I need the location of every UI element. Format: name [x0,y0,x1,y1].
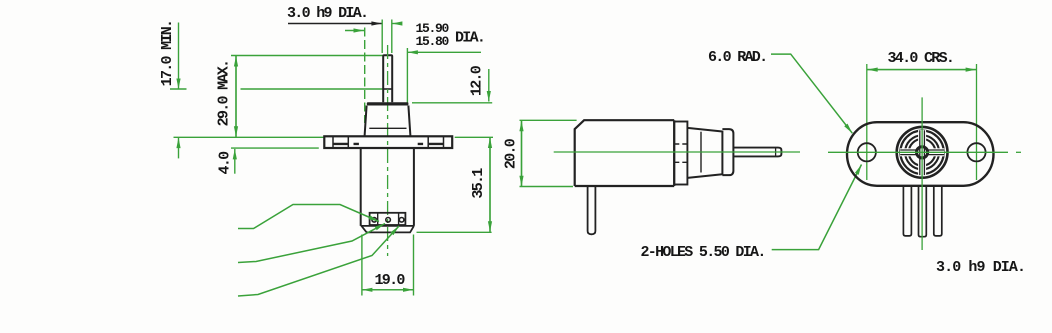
cone inner vertical line [700,132,702,173]
rear horizontal centerline [828,151,1008,153]
bushing top bar [367,102,409,105]
12.0 bottom reference line [412,102,492,104]
side shaft [733,148,781,157]
boss outer circle [897,127,948,178]
6.0 RAD leader line [771,54,852,133]
bottom tray chamfer [362,226,414,233]
svg-text:6.0 RAD.: 6.0 RAD. [708,49,766,66]
35.1 dimension line down arrow [489,138,491,232]
15.9 dia dimension line with left arrow [407,51,481,53]
green right outside arrow of 3.0 dim [392,23,399,25]
body bottom edge [361,225,414,227]
centerline left view [387,45,389,256]
20.0 top reference line [520,119,577,121]
terminal left box [377,213,379,225]
rear plate outline [847,122,994,186]
35.1 dimension line up arrow [489,138,491,232]
20.0 bottom reference line [520,186,574,188]
side body outline [575,120,675,186]
rear vertical centerline [921,97,923,250]
17.0 dim lower outside arrow line [178,138,180,159]
cone section [687,128,722,178]
left mounting hole [858,143,876,161]
4.0 lower outside arrow line [234,149,236,174]
17.0 dim upper outside arrow line [178,23,180,90]
slot horizontal white bar [900,148,944,156]
rear pins [903,186,911,236]
terminal circles [372,218,377,223]
2-HOLES leader line [772,165,862,250]
extension line bushing right edge up [406,48,408,104]
body rectangle sides [361,148,414,226]
bushing thread relief line [369,127,406,129]
terminal right box [398,213,400,225]
svg-text:19.0: 19.0 [375,272,406,289]
34.0 dimension line [867,69,976,71]
svg-text:4.0: 4.0 [217,151,234,175]
black leader underline with arrow for 3.0 h9 DIA. [288,23,382,25]
rotor arc inner [909,139,936,166]
leader L3 to terminal 3 [238,226,399,296]
svg-text:15.80: 15.80 [416,34,450,49]
svg-text:35.1: 35.1 [470,168,487,199]
shaft [383,55,392,102]
svg-text:3.0 h9 DIA.: 3.0 h9 DIA. [287,5,367,22]
bushing boss side [722,129,733,175]
svg-text:34.0 CRS.: 34.0 CRS. [888,50,954,67]
svg-text:2-HOLES 5.50 DIA.: 2-HOLES 5.50 DIA. [641,244,765,261]
svg-text:29.0 MAX.: 29.0 MAX. [216,61,233,127]
shaft tip reference line y55.5 [231,55,383,57]
extension line shaft left edge [381,20,383,54]
right mounting hole [967,143,985,161]
side pin [588,186,596,234]
shaft flat line [383,88,392,90]
shaft end chamfer line [775,148,777,157]
extension line bushing left edge up with arrow [345,30,364,32]
middle view centerline [554,151,800,153]
35.1 top reference line [455,136,493,138]
12.0 dimension line [488,69,490,102]
rear horizontal centerline dash [1016,151,1021,153]
slot vertical white bar [918,130,926,175]
35.1 bottom reference line [417,231,492,233]
terminal strip outline [370,213,406,225]
svg-text:20.0: 20.0 [503,138,520,169]
flange slot mid bars [333,143,444,145]
flange top reference line y137.3 [174,136,325,138]
svg-text:3.0 h9 DIA.: 3.0 h9 DIA. [936,259,1025,276]
shaft flat reference line y89 [170,88,383,90]
flange bottom reference line y148.1 [231,147,319,149]
rotor arc outer [905,135,939,169]
20.0 dimension line [521,121,523,186]
svg-text:17.0 MIN.: 17.0 MIN. [159,21,176,87]
flange slot ticks [333,136,444,148]
slot vertical edges [920,130,925,175]
svg-text:DIA.: DIA. [455,30,484,47]
19.0 extension lines [362,235,414,296]
strip hole dashes [674,144,687,162]
flange rectangle [324,136,452,148]
bushing trapezoid sides [365,106,411,136]
leader L2 to terminal 2 [238,224,385,263]
boss inner circle [900,131,943,174]
19.0 dimension line [362,289,414,291]
center shaft circle [917,147,928,158]
extension line shaft right edge [391,20,393,54]
34.0 extension / hole centerlines vertical [867,64,977,180]
leader L1 to terminal 1 [238,205,379,229]
slot horizontal edges [900,150,944,155]
29.0 dimension line with both arrows [235,56,237,137]
svg-text:12.0: 12.0 [469,65,486,96]
side mounting plate strip [674,122,687,185]
